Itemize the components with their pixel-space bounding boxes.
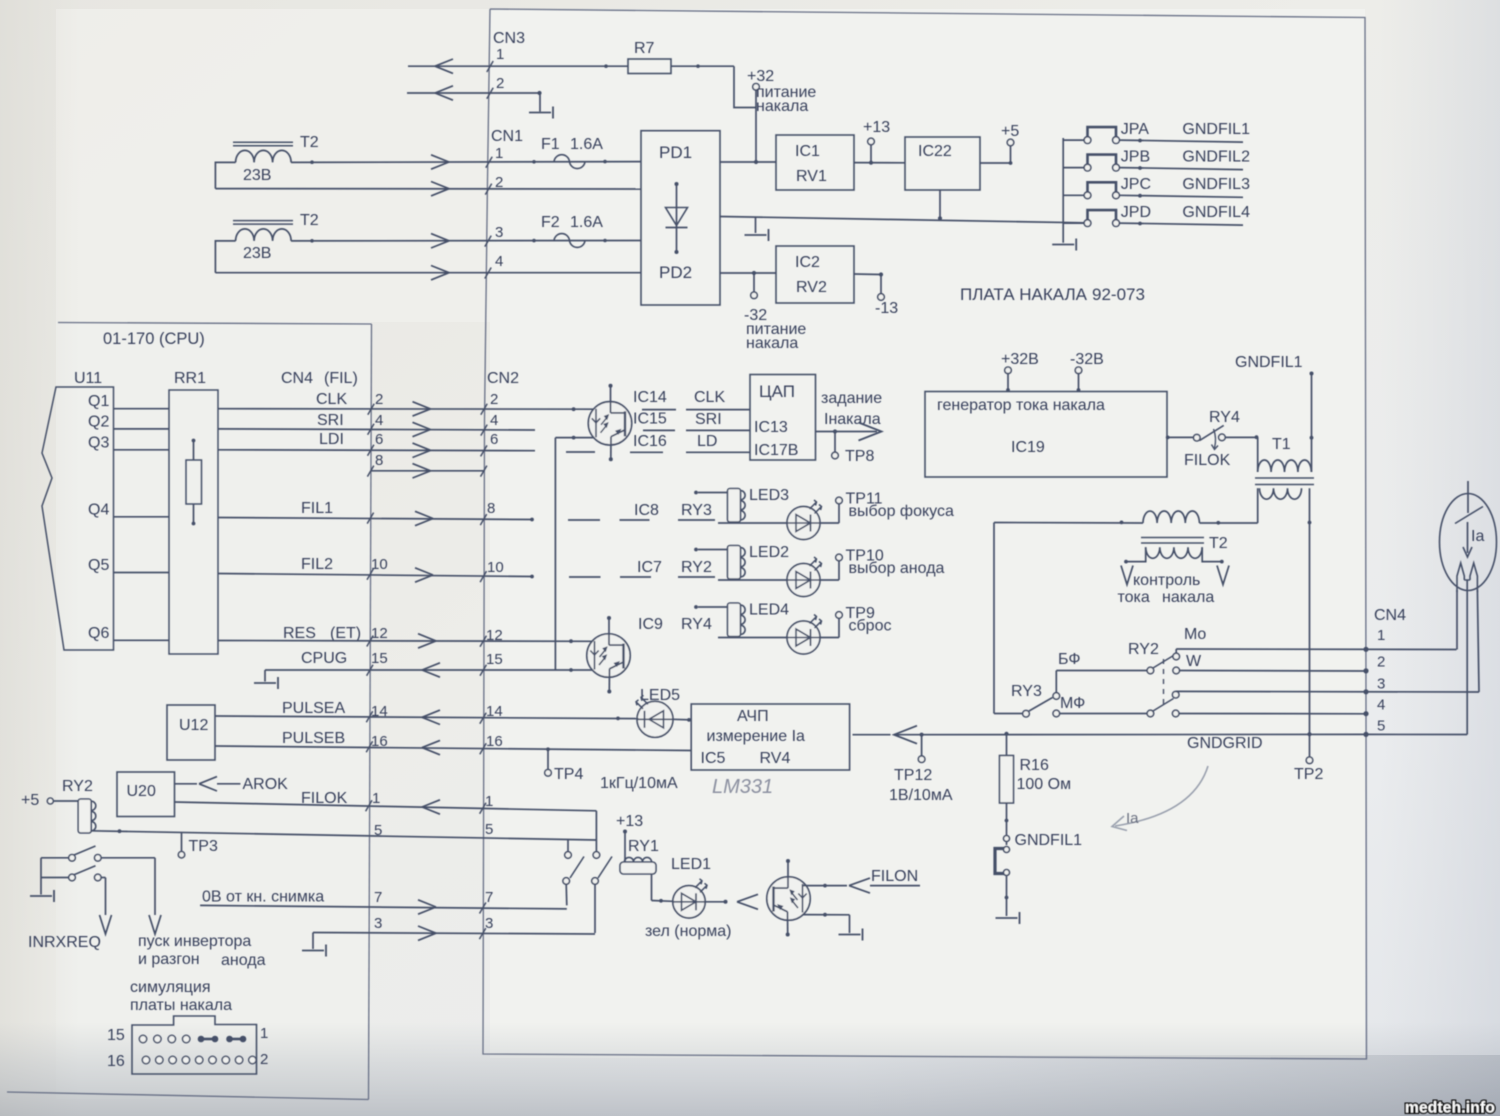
svg-text:LED4: LED4: [749, 602, 789, 619]
svg-text:(FIL): (FIL): [324, 370, 358, 387]
svg-text:U11: U11: [74, 370, 102, 387]
svg-text:пуск инвертора: пуск инвертора: [138, 933, 251, 950]
svg-text:CLK: CLK: [694, 389, 725, 406]
svg-text:GNDFIL1: GNDFIL1: [1235, 354, 1303, 371]
svg-text:CN2: CN2: [487, 370, 519, 387]
svg-text:GNDFIL2: GNDFIL2: [1182, 149, 1250, 166]
svg-text:15: 15: [107, 1027, 125, 1044]
svg-text:RY4: RY4: [1209, 409, 1240, 426]
svg-text:CLK: CLK: [316, 391, 347, 408]
svg-text:IC19: IC19: [1011, 439, 1045, 456]
svg-text:F2: F2: [541, 214, 560, 231]
svg-text:1: 1: [495, 145, 503, 162]
svg-text:TP2: TP2: [1294, 766, 1323, 783]
svg-text:8: 8: [375, 452, 383, 469]
svg-text:GNDFIL1: GNDFIL1: [1015, 832, 1083, 849]
svg-text:тока: тока: [1118, 589, 1150, 606]
svg-text:3: 3: [495, 224, 503, 241]
svg-text:-13: -13: [875, 300, 898, 317]
svg-text:+13: +13: [863, 119, 890, 136]
svg-text:10: 10: [487, 559, 504, 576]
svg-text:3: 3: [374, 915, 382, 932]
svg-text:Iнакала: Iнакала: [824, 411, 881, 428]
svg-text:анода: анода: [221, 952, 266, 969]
svg-text:+5: +5: [1001, 123, 1019, 140]
svg-text:накала: накала: [756, 98, 808, 115]
svg-text:CN4: CN4: [1374, 607, 1406, 624]
svg-text:3: 3: [485, 915, 493, 932]
svg-text:1: 1: [485, 793, 493, 810]
svg-text:генератор тока накала: генератор тока накала: [937, 397, 1105, 414]
svg-text:CPUG: CPUG: [301, 650, 347, 667]
svg-text:RY2: RY2: [62, 778, 93, 795]
svg-text:1.6A: 1.6A: [570, 214, 603, 231]
svg-text:T1: T1: [1272, 436, 1291, 453]
svg-text:100 Ом: 100 Ом: [1017, 776, 1072, 793]
svg-text:IC22: IC22: [918, 143, 952, 160]
svg-text:T2: T2: [1209, 535, 1228, 552]
svg-text:TP3: TP3: [189, 838, 218, 855]
svg-text:JPD: JPD: [1121, 204, 1151, 221]
svg-text:Q2: Q2: [88, 413, 109, 430]
svg-text:БФ: БФ: [1058, 651, 1080, 668]
svg-text:T2: T2: [300, 212, 319, 229]
svg-text:IC14: IC14: [633, 389, 667, 406]
svg-text:2: 2: [375, 391, 383, 408]
svg-text:TP8: TP8: [845, 448, 874, 465]
svg-text:16: 16: [486, 733, 503, 750]
svg-text:+13: +13: [616, 813, 643, 830]
svg-text:и разгон: и разгон: [138, 951, 200, 968]
svg-text:1: 1: [372, 790, 380, 807]
svg-text:92-073: 92-073: [1092, 285, 1145, 304]
svg-text:выбор фокуса: выбор фокуса: [849, 503, 954, 520]
svg-text:Q4: Q4: [88, 501, 109, 518]
svg-text:1В/10мА: 1В/10мА: [889, 787, 953, 804]
svg-text:PD2: PD2: [659, 263, 692, 282]
svg-text:RY4: RY4: [681, 616, 712, 633]
svg-text:+32В: +32В: [1001, 351, 1039, 368]
svg-text:RR1: RR1: [174, 370, 206, 387]
svg-text:IC2: IC2: [795, 254, 820, 271]
svg-text:4: 4: [490, 412, 498, 429]
svg-text:medteh.info: medteh.info: [1405, 1100, 1495, 1116]
svg-text:Q3: Q3: [88, 434, 109, 451]
svg-text:RY3: RY3: [1011, 683, 1042, 700]
svg-text:сброс: сброс: [849, 618, 892, 635]
svg-text:AROK: AROK: [243, 776, 289, 793]
svg-text:CN4: CN4: [281, 370, 313, 387]
svg-text:Q5: Q5: [88, 557, 109, 574]
svg-text:JPB: JPB: [1121, 149, 1150, 166]
svg-text:выбор анода: выбор анода: [849, 560, 945, 577]
svg-text:накала: накала: [1162, 589, 1214, 606]
svg-text:7: 7: [374, 889, 382, 906]
svg-text:01-170 (CPU): 01-170 (CPU): [103, 330, 205, 348]
svg-text:RY2: RY2: [1128, 641, 1159, 658]
svg-text:2: 2: [1377, 654, 1385, 671]
svg-text:МФ: МФ: [1060, 695, 1085, 712]
svg-text:CN1: CN1: [491, 128, 523, 145]
svg-text:23В: 23В: [243, 245, 271, 262]
svg-text:23В: 23В: [243, 167, 271, 184]
svg-text:W: W: [1186, 653, 1202, 670]
svg-text:2: 2: [495, 174, 503, 191]
svg-text:симуляция: симуляция: [130, 979, 211, 996]
svg-text:1кГц/10мА: 1кГц/10мА: [600, 775, 678, 792]
svg-text:PULSEA: PULSEA: [282, 700, 345, 717]
svg-text:SRI: SRI: [317, 412, 344, 429]
svg-text:FILOK: FILOK: [1184, 452, 1231, 469]
svg-text:Q1: Q1: [88, 393, 109, 410]
svg-text:JPC: JPC: [1121, 176, 1151, 193]
svg-text:зел (норма): зел (норма): [645, 923, 732, 940]
svg-text:RY1: RY1: [628, 838, 659, 855]
svg-text:Mo: Mo: [1184, 626, 1206, 643]
svg-text:FILON: FILON: [871, 868, 918, 885]
svg-text:2: 2: [490, 391, 498, 408]
svg-text:8: 8: [487, 500, 495, 517]
svg-text:U20: U20: [127, 783, 156, 800]
svg-text:2: 2: [260, 1051, 268, 1068]
svg-text:задание: задание: [821, 390, 882, 407]
svg-text:-32В: -32В: [1070, 351, 1104, 368]
svg-text:измерение Ia: измерение Ia: [707, 728, 806, 745]
svg-text:IC17В: IC17В: [754, 442, 798, 459]
svg-text:IC7: IC7: [637, 559, 662, 576]
svg-text:16: 16: [107, 1053, 125, 1070]
svg-text:FILOK: FILOK: [301, 790, 348, 807]
svg-text:+5: +5: [21, 792, 39, 809]
svg-text:накала: накала: [746, 335, 798, 352]
svg-text:1: 1: [496, 46, 504, 63]
svg-text:ЦАП: ЦАП: [759, 382, 795, 401]
svg-text:2: 2: [496, 75, 504, 92]
svg-text:TP12: TP12: [894, 767, 932, 784]
svg-text:7: 7: [485, 889, 493, 906]
svg-text:IC16: IC16: [633, 433, 667, 450]
svg-text:IC5: IC5: [701, 750, 726, 767]
svg-text:3: 3: [1377, 676, 1385, 693]
svg-text:F1: F1: [541, 136, 560, 153]
svg-text:U12: U12: [179, 717, 208, 734]
svg-text:PD1: PD1: [659, 143, 692, 162]
svg-text:LED3: LED3: [749, 487, 789, 504]
svg-text:RV1: RV1: [796, 168, 827, 185]
svg-text:GNDFIL3: GNDFIL3: [1182, 176, 1250, 193]
svg-text:FIL1: FIL1: [301, 500, 333, 517]
svg-text:контроль: контроль: [1133, 572, 1200, 589]
svg-text:ПЛАТА НАКАЛА: ПЛАТА НАКАЛА: [960, 285, 1088, 304]
svg-text:GNDFIL1: GNDFIL1: [1182, 121, 1250, 138]
svg-text:RY3: RY3: [681, 502, 712, 519]
svg-text:15: 15: [486, 651, 503, 668]
svg-text:GNDGRID: GNDGRID: [1187, 735, 1263, 752]
svg-text:10: 10: [371, 556, 388, 573]
svg-text:GNDFIL4: GNDFIL4: [1182, 204, 1250, 221]
svg-text:SRI: SRI: [695, 411, 722, 428]
svg-text:LDI: LDI: [319, 431, 344, 448]
svg-text:LM331: LM331: [712, 776, 773, 798]
svg-text:IC8: IC8: [634, 502, 659, 519]
svg-text:12: 12: [371, 625, 388, 642]
svg-text:JPA: JPA: [1121, 121, 1149, 138]
svg-text:4: 4: [375, 412, 383, 429]
svg-text:(ET): (ET): [330, 625, 361, 642]
svg-text:IC15: IC15: [633, 411, 667, 428]
svg-text:5: 5: [485, 821, 493, 838]
svg-text:IC9: IC9: [638, 616, 663, 633]
svg-text:15: 15: [371, 650, 388, 667]
svg-text:0В от кн. снимка: 0В от кн. снимка: [202, 889, 324, 906]
svg-text:4: 4: [495, 253, 503, 270]
svg-text:T2: T2: [300, 134, 319, 151]
svg-text:TP4: TP4: [554, 766, 583, 783]
svg-text:1: 1: [260, 1025, 268, 1042]
svg-text:RV4: RV4: [760, 750, 791, 767]
svg-text:платы накала: платы накала: [130, 997, 232, 1014]
svg-text:CN3: CN3: [493, 30, 525, 47]
svg-text:4: 4: [1377, 697, 1385, 714]
svg-text:1: 1: [1377, 627, 1385, 644]
svg-text:Ia: Ia: [1471, 528, 1484, 545]
svg-text:FIL2: FIL2: [301, 556, 333, 573]
svg-text:5: 5: [1377, 718, 1385, 735]
svg-text:RES: RES: [283, 625, 316, 642]
svg-text:INRXREQ: INRXREQ: [28, 934, 101, 951]
svg-text:АЧП: АЧП: [737, 708, 769, 725]
svg-text:R7: R7: [634, 40, 655, 57]
svg-text:LED1: LED1: [671, 856, 711, 873]
svg-text:6: 6: [375, 431, 383, 448]
svg-text:Ia: Ia: [1126, 810, 1139, 827]
svg-text:Q6: Q6: [88, 625, 109, 642]
svg-text:+32: +32: [747, 68, 774, 85]
svg-text:RY2: RY2: [681, 559, 712, 576]
svg-text:RV2: RV2: [796, 279, 827, 296]
svg-text:LD: LD: [697, 433, 717, 450]
svg-text:IC13: IC13: [754, 419, 788, 436]
svg-text:1.6A: 1.6A: [570, 136, 603, 153]
svg-text:R16: R16: [1020, 757, 1049, 774]
svg-text:6: 6: [490, 431, 498, 448]
svg-text:IC1: IC1: [795, 143, 820, 160]
svg-text:LED2: LED2: [749, 544, 789, 561]
svg-text:PULSEB: PULSEB: [282, 730, 345, 747]
